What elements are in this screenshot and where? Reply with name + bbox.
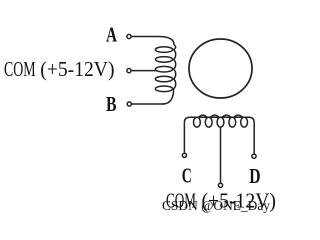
wire A to coil L1 — [132, 36, 159, 38]
coil L2 winding C-COM-D (horizontal) — [184, 115, 254, 153]
wire B to coil L1 — [132, 103, 164, 105]
terminal A — [127, 34, 131, 38]
coil L1 winding A-COM-B (vertical) — [155, 37, 175, 105]
svg-text:COM: COM — [166, 189, 196, 213]
wire COM to coil L1 center tap — [132, 70, 157, 72]
terminal COM left — [127, 69, 131, 73]
terminal COM bottom — [218, 183, 222, 187]
svg-text:COM: COM — [4, 57, 36, 81]
svg-text:A: A — [106, 23, 118, 47]
motor body (rotor circle) — [189, 39, 252, 98]
svg-text:(+5-12V): (+5-12V) — [202, 189, 277, 213]
svg-text:C: C — [182, 164, 192, 188]
svg-text:D: D — [249, 164, 260, 188]
terminal D — [252, 154, 256, 158]
svg-text:B: B — [106, 92, 117, 116]
svg-text:(+5-12V): (+5-12V) — [40, 57, 114, 81]
wire COM center tap down — [220, 127, 222, 183]
terminal B — [127, 102, 131, 106]
terminal C — [182, 153, 186, 157]
